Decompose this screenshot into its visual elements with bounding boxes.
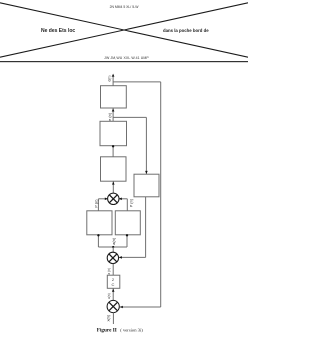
wire U to M2 <box>112 247 114 252</box>
box B4 <box>87 211 112 235</box>
svg-text:JW JM,WU XXL W.41 UMP: JW JM,WU XXL W.41 UMP <box>104 56 149 60</box>
box B3 <box>101 157 127 181</box>
svg-text:d(n): d(n) <box>108 75 112 81</box>
label xq(n) <box>107 268 111 275</box>
wire B4 bottom with junction dot <box>97 234 99 247</box>
wire B5 bottom with junction dot <box>126 234 128 247</box>
multiplier M2 <box>107 252 118 263</box>
wire bottom input <box>112 313 114 325</box>
box R (right) <box>134 174 159 197</box>
svg-text:P (n): P (n) <box>128 198 133 207</box>
caption <box>97 327 143 333</box>
header bottom tiny text <box>104 56 149 60</box>
svg-text:Figure II: Figure II <box>97 327 117 333</box>
multiplier M3 <box>107 300 119 312</box>
svg-text:C: C <box>112 282 115 287</box>
svg-text:( version 3i): ( version 3i) <box>120 327 143 332</box>
wire M1 right input from B5 <box>119 198 128 211</box>
svg-text:e (n): e (n) <box>107 112 112 121</box>
wire B2 to B1 <box>112 108 115 121</box>
wire branch to right box <box>113 116 146 118</box>
box B5 <box>115 211 140 235</box>
output arrow d(n) <box>112 74 115 86</box>
label Pa(n) <box>93 199 98 208</box>
wire M1 left input from B4 <box>98 198 107 211</box>
svg-text:dans la poche bord de: dans la poche bord de <box>163 28 209 33</box>
header left label <box>41 28 75 34</box>
label u(n) <box>107 293 111 299</box>
wire B2 to B3 with junction dot <box>112 145 114 157</box>
svg-text:x(n): x(n) <box>106 314 110 321</box>
crossed-out header diagonal 2 <box>0 3 248 57</box>
wire right feedback vertical <box>160 82 162 307</box>
svg-text:Ne des Ets loc: Ne des Ets loc <box>41 28 75 34</box>
box B2 <box>100 121 127 145</box>
wire M2 to C <box>112 264 114 275</box>
wire down into right box <box>145 117 148 174</box>
wire M1 to B3 <box>112 181 115 193</box>
label Pb(n) <box>128 198 133 207</box>
wire U connector <box>98 246 127 248</box>
svg-text:x (n): x (n) <box>107 268 111 275</box>
box B1 <box>101 86 127 108</box>
svg-text:2N MM4 5 XL/ 5-W: 2N MM4 5 XL/ 5-W <box>110 5 140 9</box>
header right label <box>163 28 209 33</box>
crossed-out header diagonal 1 <box>0 3 248 57</box>
box C <box>107 275 120 288</box>
header tiny top text <box>110 5 140 9</box>
svg-text:P (n): P (n) <box>93 199 98 208</box>
wire M3 to C <box>112 288 115 300</box>
svg-text:u(n): u(n) <box>107 293 111 299</box>
label a(n) <box>112 237 116 244</box>
label x(n) <box>106 314 110 321</box>
svg-text:a(n): a(n) <box>112 237 116 244</box>
header horizontal rule <box>0 61 248 62</box>
label eq(n) <box>107 112 112 121</box>
wire R output down to M2 <box>119 197 146 259</box>
multiplier M1 <box>108 193 119 204</box>
wire top branch <box>113 81 161 83</box>
wire feedback into M3 right <box>120 306 161 309</box>
label d(n) <box>108 75 112 81</box>
